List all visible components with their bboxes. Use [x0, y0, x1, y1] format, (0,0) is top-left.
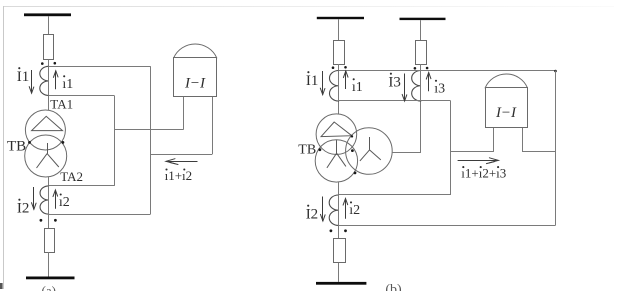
- svg-text:ı3: ı3: [434, 82, 445, 97]
- svg-text:ı2: ı2: [59, 195, 70, 210]
- svg-text:(b): (b): [385, 282, 402, 291]
- svg-text:I3: I3: [388, 75, 401, 91]
- svg-text:(a): (a): [42, 283, 56, 291]
- svg-text:I1: I1: [306, 73, 319, 89]
- svg-text:TB: TB: [7, 139, 26, 155]
- svg-text:I2: I2: [306, 207, 319, 223]
- svg-text:ı2: ı2: [349, 203, 360, 218]
- svg-text:I2: I2: [17, 201, 30, 217]
- svg-text:ı1+ı2+ı3: ı1+ı2+ı3: [461, 165, 506, 180]
- svg-text:TA1: TA1: [50, 97, 73, 112]
- svg-text:ı1: ı1: [352, 80, 363, 95]
- svg-text:ı1+ı2: ı1+ı2: [165, 168, 193, 183]
- svg-text:I−I: I−I: [184, 76, 206, 92]
- svg-text:ı1: ı1: [62, 77, 73, 92]
- svg-text:TB: TB: [298, 143, 316, 158]
- svg-text:I1: I1: [17, 69, 30, 85]
- svg-text:TA2: TA2: [60, 169, 83, 184]
- svg-text:I−I: I−I: [495, 105, 517, 121]
